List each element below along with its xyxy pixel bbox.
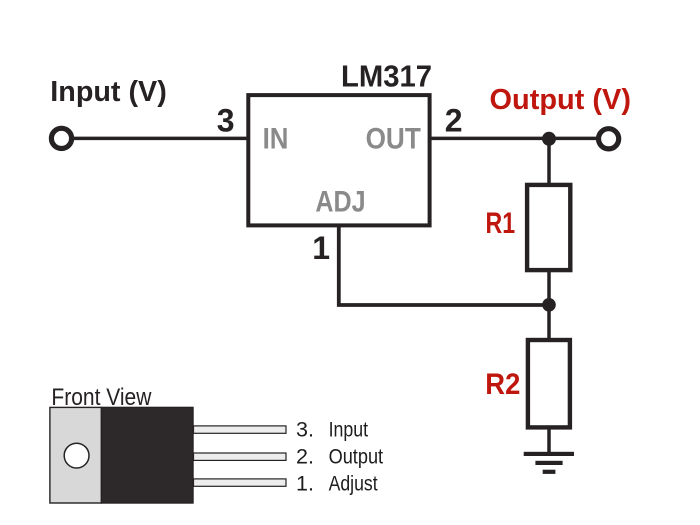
wire R1 to adjust junction (547, 270, 551, 305)
svg-text:IN: IN (263, 122, 289, 155)
svg-text:1.Adjust: 1.Adjust (296, 471, 378, 495)
wire R2 to ground (547, 427, 551, 453)
wire input terminal to IN pin (72, 137, 248, 141)
ground (524, 452, 574, 474)
svg-text:ADJ: ADJ (315, 186, 365, 219)
svg-text:R1: R1 (486, 207, 516, 240)
svg-text:2: 2 (445, 102, 463, 138)
resistor R1 (527, 185, 570, 270)
node output terminal (599, 129, 619, 149)
svg-text:1: 1 (312, 230, 330, 266)
node output junction dot (542, 132, 556, 146)
svg-text:Output (V): Output (V) (490, 84, 632, 116)
svg-text:Input (V): Input (V) (50, 76, 167, 108)
node input terminal (51, 128, 71, 148)
pin 3 lead (194, 426, 287, 433)
wire output node to R1 (547, 139, 551, 184)
svg-text:LM317: LM317 (341, 59, 432, 94)
wire ADJ pin to adjust junction (339, 226, 549, 305)
pin 2 lead (194, 453, 287, 460)
TO-220 package body (101, 407, 193, 503)
svg-text:2.Output: 2.Output (296, 445, 383, 469)
svg-text:R2: R2 (485, 368, 520, 401)
svg-text:OUT: OUT (366, 122, 421, 155)
node adjust junction dot (542, 298, 556, 312)
regulator U1 LM317 body (248, 95, 429, 225)
resistor R2 (528, 340, 570, 427)
pin 1 lead (194, 479, 287, 486)
wire adjust junction to R2 (547, 305, 551, 341)
svg-text:3: 3 (217, 103, 235, 139)
svg-text:3.Input: 3.Input (296, 418, 368, 442)
wire OUT pin to output node (430, 137, 597, 141)
TO-220 mounting hole (64, 443, 89, 468)
TO-220 package tab (50, 407, 102, 503)
